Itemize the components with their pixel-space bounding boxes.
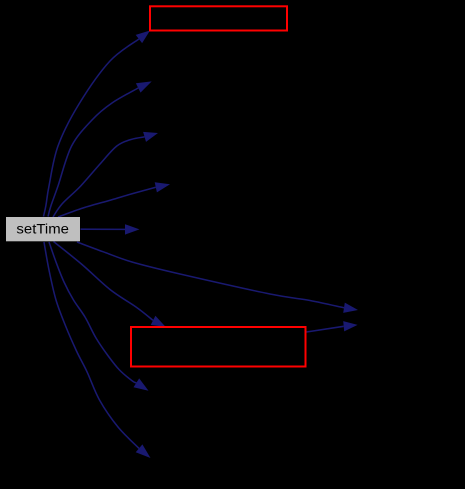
svg-text:setTime: setTime — [16, 222, 69, 238]
edge setTime->N3 — [53, 132, 158, 217]
edge setTime->N9 — [44, 242, 151, 458]
edge setTime->N1 (top red box) — [44, 31, 151, 217]
edge setTime->N8 — [49, 242, 149, 391]
edge setTime->N4 — [58, 182, 170, 217]
node N7: red truncated node (lower) — [131, 327, 306, 367]
edge setTime->N5 (horizontal) — [81, 224, 140, 234]
node setTime (current node, grey) — [6, 217, 80, 241]
edge setTime->N2 — [48, 81, 152, 216]
edge N7->N6 — [307, 321, 358, 332]
edge setTime->N7 (lower red box) — [54, 242, 166, 327]
node N1: red truncated node (top) — [150, 6, 287, 30]
edge setTime->N6 (long right) — [77, 242, 358, 313]
